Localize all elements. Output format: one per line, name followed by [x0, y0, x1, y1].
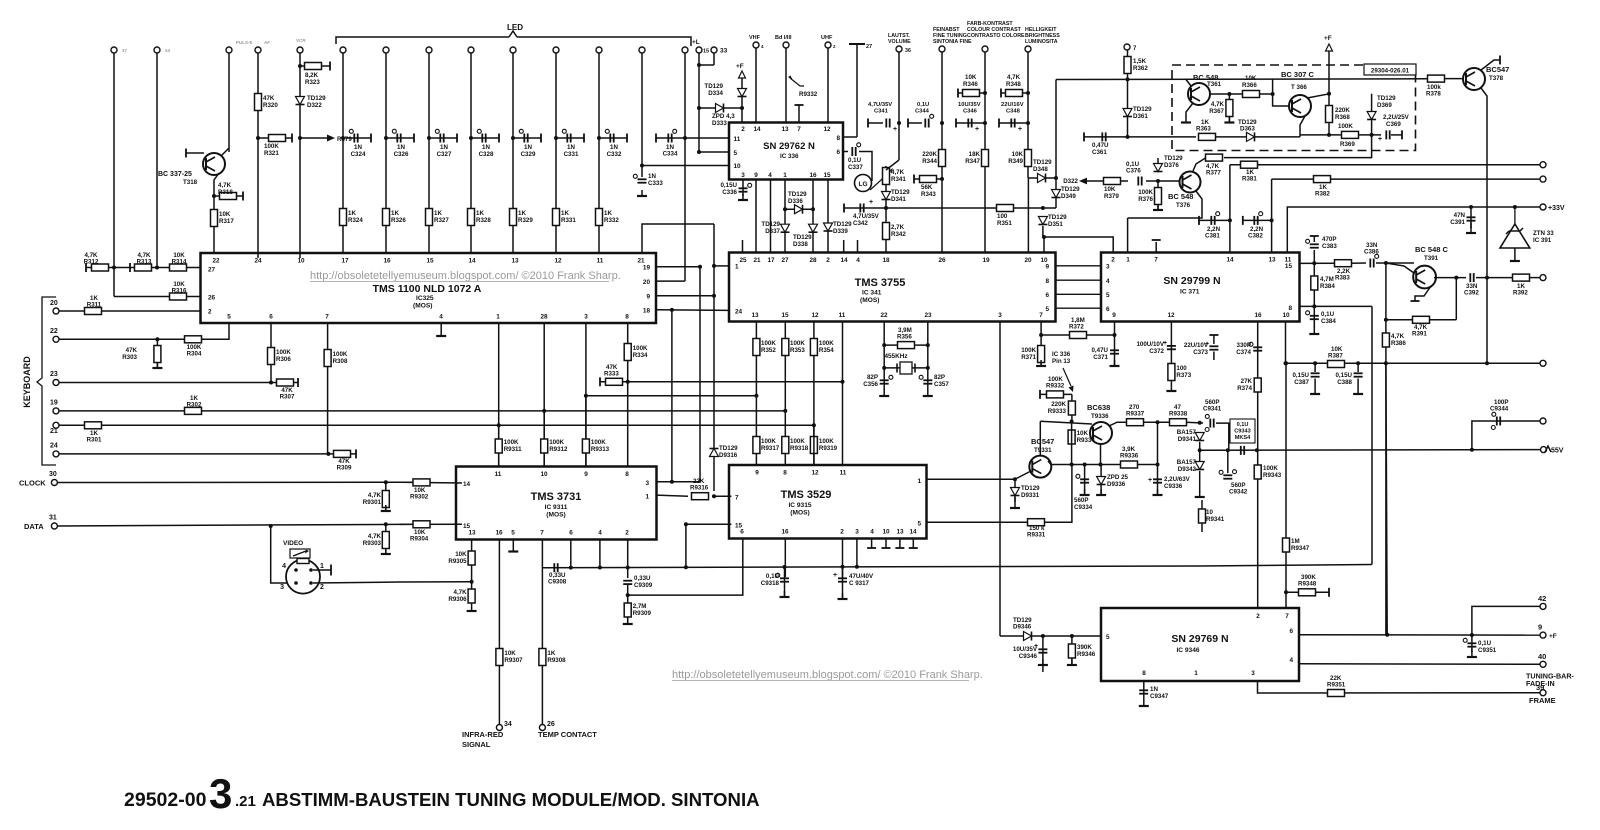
wire col498 down: [498, 425, 500, 466]
bus dot c: [626, 566, 630, 570]
wire CLOCK row: [57, 481, 413, 483]
wire C327 lead: [431, 137, 457, 139]
zener regulator IC391 ZTN33: [1500, 224, 1530, 248]
wire R303 vert: [156, 339, 158, 368]
pointer IC336 pin13: [1063, 368, 1071, 386]
svg-text:TEMP CONTACT: TEMP CONTACT: [538, 730, 597, 739]
svg-text:R386: R386: [1391, 340, 1406, 347]
stub pin14-3529: [912, 539, 914, 549]
stub 3755 pin25 up: [742, 240, 744, 253]
resistor R307 47K: [277, 379, 294, 386]
svg-text:T 366: T 366: [1291, 84, 1307, 91]
wire C387 down: [1314, 379, 1316, 389]
resistor R318 4.7K: [220, 193, 237, 200]
junction R372 left: [1039, 333, 1043, 337]
terminal 23: [53, 380, 59, 386]
svg-text:C329: C329: [521, 151, 536, 158]
svg-text:7: 7: [1154, 257, 1158, 264]
svg-text:R372: R372: [1069, 324, 1084, 331]
svg-text:6: 6: [1289, 628, 1293, 635]
svg-text:Bd I/III: Bd I/III: [775, 35, 792, 41]
svg-text:R9309: R9309: [633, 610, 652, 617]
wire R9304 row: [400, 523, 462, 525]
ground C9317: [842, 593, 844, 599]
svg-text:5: 5: [734, 150, 738, 157]
wire R391 row: [1386, 319, 1456, 321]
stub pin13-3529 bar: [895, 547, 904, 549]
svg-text:C9344: C9344: [1490, 406, 1509, 413]
junction chain-208: [884, 206, 888, 210]
junction C9343-R9343: [1255, 448, 1259, 452]
diode D369 TD129: [1367, 112, 1376, 120]
resistor R377 4.7K: [1206, 154, 1223, 161]
junction C383: [1312, 261, 1316, 265]
wire R392 out: [1529, 277, 1541, 279]
svg-text:R9305: R9305: [448, 558, 467, 565]
capacitor C342 4.7U/35V: [859, 204, 861, 213]
svg-text:R9334: R9334: [1077, 437, 1096, 444]
svg-text:IC325: IC325: [416, 295, 434, 302]
stub R9332 left: [1039, 390, 1041, 399]
svg-text:21: 21: [50, 428, 58, 435]
bus dot d: [684, 565, 688, 569]
wire R376 vert: [1157, 181, 1159, 210]
ground D9342: [1199, 491, 1201, 497]
svg-text:R327: R327: [434, 217, 449, 224]
wire T391 base: [1386, 263, 1414, 273]
svg-text:C376: C376: [1126, 168, 1141, 175]
wire 9338 out: [1186, 421, 1203, 424]
svg-text:R383: R383: [1335, 275, 1350, 282]
svg-text:D322: D322: [1063, 178, 1078, 185]
junction e-rail3: [1099, 463, 1103, 467]
resistor R9347 1M: [1283, 538, 1290, 552]
wire pin5-3731 stub: [512, 540, 514, 547]
transistor T376 BC548: [1180, 172, 1201, 193]
svg-text:21: 21: [753, 257, 761, 264]
svg-text:C336: C336: [722, 189, 737, 196]
wire pin8-29769 down: [1143, 681, 1145, 700]
terminal col8: [426, 47, 432, 53]
resistor R320 47K: [255, 94, 262, 111]
terminal col7: [383, 47, 389, 53]
svg-text:16: 16: [383, 258, 391, 265]
wire rail137b: [1216, 136, 1300, 138]
wire C9344 row: [1472, 421, 1541, 450]
svg-text:BC 307 C: BC 307 C: [1281, 70, 1315, 79]
wire pin3-3755 vert: [999, 322, 1001, 637]
svg-text:9: 9: [1112, 312, 1116, 319]
stub R9348 end: [1328, 588, 1330, 597]
svg-text:R342: R342: [891, 231, 906, 238]
wire rail208: [844, 207, 1056, 209]
wire T378 emitter: [1481, 88, 1487, 363]
svg-text:R9332: R9332: [799, 91, 818, 98]
svg-text:6: 6: [569, 530, 573, 537]
stub C346 left: [955, 119, 957, 128]
svg-text:R9308: R9308: [547, 657, 566, 664]
capacitor C333 1N: [638, 178, 647, 180]
stub 3755 pin4 up: [857, 240, 859, 253]
wire R356 row: [884, 344, 928, 346]
svg-text:R9316: R9316: [690, 485, 709, 492]
capacitor C348 22U/16V: [1010, 119, 1012, 128]
wire R383-C386: [1351, 262, 1366, 264]
junction pin3-rail: [584, 394, 588, 398]
junction 33V-ZTN: [1513, 205, 1517, 209]
svg-text:C9308: C9308: [548, 579, 567, 586]
svg-text:C381: C381: [1205, 233, 1220, 240]
svg-text:28: 28: [540, 314, 548, 321]
transistor T9336 BC638: [1090, 422, 1112, 444]
wire T366 base riser: [1272, 79, 1274, 94]
svg-text:10K: 10K: [965, 74, 977, 81]
capacitor C386 33N: [1369, 259, 1371, 268]
svg-text:R9336: R9336: [1120, 453, 1139, 460]
stub C332 end: [626, 134, 628, 143]
capacitor C357 82P: [923, 379, 932, 381]
resistor R379 10K: [1104, 178, 1121, 185]
wire 42 link: [1472, 606, 1541, 635]
resistor R378 100k: [1428, 75, 1445, 82]
svg-text:10: 10: [734, 163, 742, 170]
wire Bd down: [785, 48, 787, 122]
stub T318 base end: [185, 149, 187, 158]
svg-text:15: 15: [823, 172, 831, 179]
svg-text:IC 341: IC 341: [862, 290, 882, 297]
wire pin28 vert: [543, 323, 545, 467]
wire T318 base: [186, 152, 204, 154]
svg-text:R9303: R9303: [363, 540, 382, 547]
stub C329 end: [540, 134, 542, 143]
junction C324: [341, 136, 345, 140]
terminal 9 +F: [1540, 632, 1546, 638]
svg-text:+F: +F: [1549, 633, 1557, 640]
resistor R309 47K: [334, 450, 351, 457]
junction C334-col14: [683, 136, 687, 140]
stub rail208 left: [843, 204, 845, 213]
svg-text:24: 24: [50, 443, 58, 450]
svg-text:C9336: C9336: [1164, 483, 1183, 490]
svg-text:VHF: VHF: [749, 35, 761, 41]
wire D9342 down: [1199, 471, 1201, 492]
svg-text:10: 10: [1282, 312, 1290, 319]
svg-text:39: 39: [1536, 683, 1544, 692]
svg-text:D351: D351: [1048, 221, 1063, 228]
junction R303: [155, 337, 159, 341]
wire +F down: [741, 78, 743, 122]
svg-text:12: 12: [823, 126, 831, 133]
terminal 30 CLOCK: [51, 480, 57, 486]
svg-text:VIDEO: VIDEO: [283, 540, 303, 547]
junction C381: [1228, 218, 1232, 222]
junction fine-C344: [940, 121, 944, 125]
svg-text:8: 8: [1045, 278, 1049, 285]
terminal out R392: [1540, 275, 1546, 281]
junction e-rail1: [1070, 463, 1074, 467]
svg-text:2: 2: [741, 126, 745, 133]
resistor R9301 4.7K: [382, 491, 389, 508]
wire em638: [1100, 444, 1102, 465]
resistor R9348 390K: [1299, 589, 1316, 596]
wire ZTN down: [1514, 248, 1516, 255]
IC IC336 SN 29762 N: [729, 123, 843, 180]
svg-text:R302: R302: [187, 402, 202, 409]
svg-text:9: 9: [1538, 623, 1542, 632]
resistor R323: [305, 63, 322, 70]
svg-text:CLOCK: CLOCK: [19, 479, 46, 488]
svg-text:16: 16: [809, 172, 817, 179]
svg-text:13: 13: [511, 258, 519, 265]
svg-text:BC 548: BC 548: [1168, 192, 1193, 201]
capacitor C388 0.15U: [1354, 372, 1363, 374]
capacitor C373 22U/10V: [1209, 345, 1218, 347]
LED bracket line: [336, 37, 509, 44]
svg-text:18: 18: [643, 308, 651, 315]
wire C348 row: [999, 122, 1028, 124]
terminal BRIGHT: [1025, 46, 1031, 52]
wire pin1-3755 link: [714, 265, 729, 267]
junction rail208-D351: [1041, 206, 1045, 210]
svg-text:R304: R304: [187, 351, 202, 358]
svg-text:IC 391: IC 391: [1533, 237, 1552, 244]
resistor R321 100K: [269, 135, 286, 142]
bus dot f: [841, 565, 845, 569]
wire 15-33 link: [699, 64, 714, 66]
svg-text:C 9317: C 9317: [849, 580, 870, 587]
resistor R376 100K: [1155, 188, 1162, 205]
wire col586 down: [585, 396, 587, 467]
svg-text:11: 11: [597, 258, 604, 265]
junction C327: [427, 136, 431, 140]
junction R367 top: [1227, 92, 1231, 96]
junction C326: [384, 136, 388, 140]
junction 24-R309: [326, 452, 330, 456]
resistor R9317 100K: [753, 437, 760, 454]
resistor R304 100K: [185, 336, 202, 343]
wire pin16-29799 down: [1257, 322, 1259, 609]
svg-text:12: 12: [811, 470, 819, 477]
wire fine drop: [941, 52, 943, 253]
wire D351 to rail237: [1043, 236, 1044, 238]
wire R348 row: [1001, 92, 1028, 94]
capacitor C9336 2.2U/63V: [1153, 478, 1162, 480]
wire R372 row: [1041, 334, 1114, 336]
wire pin6 link: [843, 151, 848, 153]
svg-text:R379: R379: [1104, 193, 1119, 200]
svg-text:13: 13: [751, 312, 759, 319]
ground C356: [883, 390, 885, 396]
resistor R342 2.7K: [883, 223, 890, 240]
svg-text:2: 2: [625, 530, 629, 537]
wire pin1 down: [784, 180, 786, 254]
terminal R382 out: [1540, 176, 1546, 182]
svg-text:http://obsoletetellyemuseum.bl: http://obsoletetellyemuseum.blogspot.com…: [672, 669, 983, 681]
wire R9302 row: [400, 481, 462, 484]
terminal 33: [711, 47, 717, 53]
wire R323 lead: [300, 65, 330, 67]
wire pin8 riser: [1371, 306, 1373, 564]
wire pin9 link: [656, 295, 714, 297]
stub C348 left: [998, 119, 1000, 128]
diode D339 TD129: [824, 223, 833, 231]
wire rail79 right: [1444, 78, 1463, 80]
svg-text:(MOS): (MOS): [860, 297, 879, 304]
svg-text:C334: C334: [663, 151, 678, 158]
junction R313-col2: [155, 266, 159, 270]
resistor R9334 10K: [1068, 430, 1075, 444]
svg-text:R368: R368: [1335, 114, 1350, 121]
diode D9341 BA157: [1195, 433, 1204, 441]
junction riser-178: [1054, 176, 1058, 180]
capacitor C341 4.7U/35V: [885, 119, 887, 128]
svg-text:19: 19: [982, 257, 990, 264]
wire 24 row: [59, 453, 329, 455]
wire pin3-3731 row: [657, 481, 701, 483]
svg-text:28: 28: [809, 257, 817, 264]
junction C9342: [1226, 448, 1230, 452]
svg-text:15: 15: [781, 312, 789, 319]
svg-text:7: 7: [325, 314, 329, 321]
wire R9331 up: [1044, 465, 1072, 523]
svg-text:R9343: R9343: [1263, 472, 1282, 479]
wire pin3 down: [742, 180, 744, 197]
junction R366-T366: [1271, 92, 1275, 96]
svg-text:(MOS): (MOS): [790, 510, 809, 517]
svg-text:3: 3: [280, 584, 284, 591]
terminal Bd I/III: [783, 42, 789, 48]
svg-text:TMS 3755: TMS 3755: [855, 277, 906, 289]
wire link 3755p8-29799p4: [1056, 279, 1102, 281]
wire 21 row: [59, 424, 815, 426]
svg-text:KEYBOARD: KEYBOARD: [22, 356, 32, 408]
ground IC325 pin4: [440, 330, 442, 336]
junction R9347-bus: [1284, 361, 1288, 365]
wire pin27 row: [86, 267, 200, 269]
stub pin10-3529 bar: [882, 547, 891, 549]
svg-text:IC 9311: IC 9311: [545, 504, 568, 511]
wire C9309 chain: [627, 584, 629, 624]
svg-text:R367: R367: [1209, 108, 1224, 115]
stub R323 end: [329, 62, 331, 71]
junction D336 right: [811, 207, 815, 211]
stub R312 end: [85, 263, 87, 272]
junction R9348: [1284, 590, 1288, 594]
svg-text:R9304: R9304: [410, 536, 429, 543]
stub 3755 pin14 up: [843, 240, 845, 253]
wire R9332 row: [1040, 393, 1072, 395]
svg-text:C324: C324: [351, 151, 366, 158]
wire R9334 down: [1071, 422, 1073, 465]
svg-text:D336: D336: [788, 198, 803, 205]
terminal col5: [297, 47, 303, 53]
svg-text:5: 5: [1045, 306, 1049, 313]
svg-text:3: 3: [1106, 264, 1110, 271]
svg-text:12: 12: [811, 312, 819, 319]
svg-text:R328: R328: [476, 217, 491, 224]
wire pin16-3529: [784, 539, 786, 578]
junction rail396-R352: [754, 394, 758, 398]
capacitor C9342 560P: [1223, 474, 1232, 476]
svg-text:20: 20: [643, 279, 651, 286]
svg-text:R307: R307: [280, 394, 295, 401]
terminal 39: [1540, 690, 1546, 696]
svg-text:10: 10: [540, 471, 548, 478]
resistor R349 10K: [1025, 150, 1032, 167]
junction base T376: [1156, 179, 1160, 183]
stub R333 left: [599, 377, 601, 386]
svg-text:C333: C333: [648, 180, 663, 187]
resistor R9313 100K: [582, 439, 589, 453]
svg-text:TMS 3731: TMS 3731: [531, 491, 582, 503]
svg-text:T318: T318: [183, 179, 198, 186]
svg-text:R344: R344: [922, 158, 937, 165]
stub T378 collector: [1499, 56, 1501, 65]
junction 33V-C391: [1469, 205, 1473, 209]
wire C341 lead: [868, 122, 883, 124]
svg-text:0,1U: 0,1U: [1237, 422, 1249, 428]
stub C331 end: [583, 134, 585, 143]
wire pin6-3731: [570, 540, 572, 568]
junction C392-1487: [1485, 276, 1489, 280]
svg-text:.21: .21: [235, 793, 256, 810]
svg-text:27: 27: [781, 257, 789, 264]
wire col3 vertical: [228, 53, 230, 152]
ground C9351: [1471, 651, 1473, 657]
wire 685 down: [685, 524, 687, 567]
junction fine-R343: [940, 177, 944, 181]
capacitor C336 0.15U: [739, 187, 748, 189]
svg-text:1: 1: [735, 264, 739, 271]
wire col5 vertical: [299, 53, 301, 258]
svg-text:13: 13: [1268, 257, 1276, 264]
wire R9341 down: [1201, 523, 1203, 532]
svg-text:C388: C388: [1337, 379, 1352, 386]
wire col814 up: [813, 425, 815, 465]
junction p23-R356: [926, 343, 930, 347]
svg-text:1: 1: [917, 478, 921, 485]
wire C376-T376: [1146, 180, 1180, 182]
resistor R333 47K: [606, 378, 623, 385]
dashed module box 29304-026.01: [1172, 65, 1416, 151]
terminal col2: [154, 47, 160, 53]
wire pin5 link: [699, 151, 729, 153]
svg-text:R320: R320: [263, 102, 278, 109]
svg-text:4: 4: [1289, 657, 1293, 664]
svg-text:BC 548 C: BC 548 C: [1415, 245, 1449, 254]
junction T391c: [1454, 276, 1458, 280]
stub pin7 T: [795, 104, 804, 106]
resistor R308 100K: [324, 350, 331, 367]
resistor R366 10K: [1243, 91, 1260, 98]
wire D333 row: [699, 107, 742, 109]
diode D9336 ZPD25: [1097, 477, 1106, 485]
wire pin7-3755 vert: [1040, 322, 1042, 367]
stub C334 end: [655, 134, 657, 143]
resistor R9338 47: [1170, 419, 1187, 426]
wire +33V rail: [1287, 207, 1540, 253]
wire pin15-3529 row: [686, 523, 732, 525]
wire pin7-29799 stub: [1155, 242, 1157, 253]
wire vol drop: [898, 52, 900, 160]
ground R303: [156, 362, 158, 368]
svg-text:24: 24: [165, 48, 171, 53]
svg-text:R381: R381: [1242, 176, 1257, 183]
svg-text:13: 13: [896, 529, 904, 536]
terminal VHF: [753, 42, 759, 48]
svg-text:4,7U/35V: 4,7U/35V: [868, 102, 892, 108]
svg-text:R306: R306: [276, 356, 291, 363]
